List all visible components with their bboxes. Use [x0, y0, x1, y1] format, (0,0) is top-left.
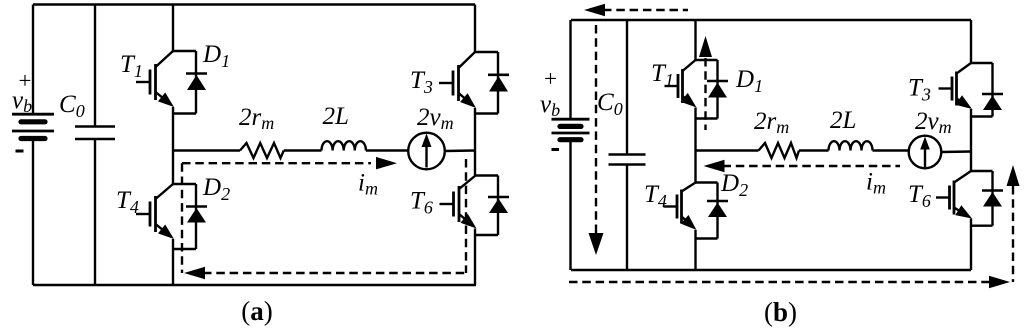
- svg-text:(a): (a): [241, 296, 273, 326]
- wire left leg upper (b): [694, 20, 696, 60]
- dashed current path middle (b): [723, 165, 901, 167]
- wire left leg middle (b): [694, 108, 696, 183]
- dashed path arrow up through D1 (b): [699, 36, 712, 57]
- circuit (a) top rail wire: [33, 3, 475, 5]
- battery Vb (b) plate long top: [552, 118, 590, 121]
- wire right leg upper (b): [970, 20, 972, 63]
- dashed current path top (b): [603, 9, 688, 11]
- diode D3 (a): [475, 52, 509, 114]
- inductor 2L (a): [322, 141, 366, 150]
- dashed current path right vertical (a): [465, 159, 467, 273]
- label - terminal (a): [16, 150, 24, 153]
- dashed path arrow left middle (b): [704, 160, 725, 172]
- battery Vb (b) plate short thick 1: [560, 124, 581, 129]
- svg-text:2L: 2L: [830, 107, 856, 134]
- battery Vb (a) plate short thick 1: [21, 119, 45, 124]
- dashed current path bottom outside (b): [569, 281, 990, 283]
- transistor T3 (b): [939, 63, 973, 109]
- dashed current path bottom (a): [203, 272, 466, 274]
- capacitor C0 (b) plate top: [609, 153, 646, 156]
- wire resistor to inductor (b): [799, 149, 829, 151]
- capacitor C0 (a) plate top: [75, 125, 115, 128]
- dashed path arrow down (b): [589, 233, 604, 255]
- wire inductor to source (b): [873, 149, 910, 151]
- battery Vb (b) plate short thick 2: [560, 137, 581, 142]
- diode D6 (b): [971, 171, 1003, 226]
- dashed current path left vertical (a): [181, 163, 183, 273]
- svg-text:+: +: [544, 66, 557, 91]
- wire left leg middle (a): [172, 107, 174, 184]
- dashed path arrow up right (b): [1007, 165, 1020, 186]
- dashed current path through D1 (b): [704, 58, 706, 130]
- transistor T3 (a): [439, 52, 476, 108]
- capacitor C0 (a) plate bottom: [75, 138, 115, 141]
- wire right leg lower (a): [474, 229, 476, 286]
- battery Vb (a) plate long top: [12, 113, 54, 116]
- battery Vb (b) bottom wire: [569, 142, 571, 270]
- svg-text:2L: 2L: [323, 103, 349, 130]
- transistor T1 (a): [136, 51, 174, 107]
- wire right leg lower (b): [970, 219, 972, 271]
- battery Vb (a) top wire: [32, 5, 34, 115]
- wire middle left segment (a): [173, 149, 240, 151]
- dashed current path battery vertical (b): [595, 25, 597, 233]
- wire resistor to inductor (a): [284, 149, 322, 151]
- wire left leg upper (a): [172, 5, 174, 52]
- resistor 2r_m (b): [759, 143, 800, 158]
- battery Vb (b) top wire: [569, 20, 571, 119]
- transistor T1 (b): [665, 60, 697, 108]
- current source 2v_m circle (a): [408, 133, 445, 170]
- inductor 2L (b): [829, 141, 873, 150]
- wire right leg middle (a): [474, 108, 476, 176]
- capacitor C0 (b) plate bottom: [609, 163, 646, 166]
- transistor T6 (a): [440, 176, 477, 229]
- current source 2v_m circle (b): [909, 136, 942, 169]
- diode D1 (a): [173, 51, 207, 114]
- dashed current path right outside vertical (b): [1012, 186, 1014, 282]
- wire inductor to source (a): [366, 149, 408, 151]
- battery Vb (a) plate short thick 2: [21, 136, 45, 141]
- diode D2 (b): [696, 183, 729, 239]
- battery Vb (b) plate long bottom: [552, 132, 590, 135]
- battery Vb (a) bottom wire: [32, 141, 34, 286]
- diode D2 (a): [173, 184, 207, 249]
- dashed current path middle (a): [182, 162, 371, 164]
- label - terminal (b): [552, 148, 560, 151]
- circuit (b) top rail wire: [571, 19, 971, 21]
- svg-text:(b): (b): [764, 297, 797, 327]
- resistor 2r_m (a): [240, 143, 284, 158]
- diode D1 (b): [696, 60, 729, 119]
- capacitor C0 (a) bottom wire: [94, 139, 96, 285]
- wire right leg middle (b): [970, 109, 972, 171]
- dashed path arrow i_m (a): [376, 157, 397, 170]
- transistor T4 (b): [664, 183, 697, 231]
- wire source to right leg (b): [941, 150, 971, 153]
- current source arrow (b): [924, 149, 926, 168]
- current source arrow (a): [425, 146, 427, 168]
- transistor T4 (a): [136, 184, 174, 239]
- wire source to right leg (a): [445, 149, 475, 152]
- circuit (b) bottom rail wire: [571, 269, 971, 271]
- capacitor C0 (a) top wire: [94, 5, 96, 127]
- diode D6 (a): [476, 176, 510, 236]
- circuit (a) bottom rail wire: [33, 284, 476, 286]
- dashed path arrow bottom right (b): [989, 276, 1010, 288]
- capacitor C0 (b) bottom wire: [626, 165, 628, 271]
- capacitor C0 (b) top wire: [626, 20, 628, 155]
- battery Vb (a) plate long bottom: [12, 130, 54, 133]
- wire middle left segment (b): [696, 149, 759, 151]
- dashed path arrow top left (b): [584, 4, 605, 16]
- wire right leg upper (a): [474, 5, 476, 53]
- transistor T6 (b): [936, 171, 972, 219]
- dashed path arrow bottom left (a): [184, 267, 205, 279]
- wire left leg lower (a): [172, 239, 174, 285]
- diode D3 (b): [971, 63, 1003, 117]
- wire left leg lower (b): [694, 230, 696, 270]
